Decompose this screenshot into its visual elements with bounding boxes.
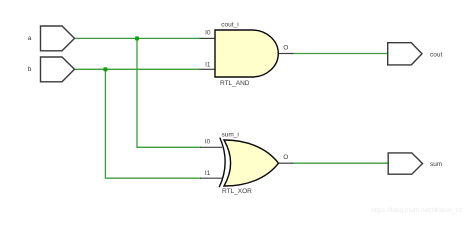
svg-text:sum_i: sum_i <box>222 132 239 139</box>
svg-text:RTL_AND: RTL_AND <box>220 80 250 87</box>
svg-text:O: O <box>283 45 288 52</box>
svg-text:O: O <box>283 154 288 161</box>
input port a <box>41 26 75 51</box>
junction dot on wire b <box>103 67 107 71</box>
pin stub AND I1 <box>200 68 216 70</box>
svg-text:cout_i: cout_i <box>221 22 238 29</box>
svg-text:cout: cout <box>430 51 442 58</box>
svg-text:RTL_XOR: RTL_XOR <box>222 188 252 195</box>
pin stub XOR I1 <box>200 177 222 179</box>
output port sum <box>388 153 422 174</box>
svg-text:b: b <box>28 66 32 73</box>
wire sum output <box>292 162 388 164</box>
wire cout output <box>292 53 388 55</box>
input port b <box>41 57 75 82</box>
junction dot on wire a <box>135 36 139 40</box>
xor gate sum_i RTL_XOR body <box>224 140 279 186</box>
svg-text:a: a <box>28 35 32 42</box>
svg-text:I0: I0 <box>205 29 211 36</box>
svg-text:https://blog.csdn.net/Motion_z: https://blog.csdn.net/Motion_zz <box>371 207 462 214</box>
svg-text:I0: I0 <box>205 139 211 146</box>
pin stub AND O <box>278 53 293 55</box>
wire a vertical branch <box>137 38 201 147</box>
xor gate leading arc <box>219 138 225 188</box>
and gate cout_i RTL_AND <box>215 30 278 77</box>
pin stub AND I0 <box>200 37 216 39</box>
pin stub XOR O <box>279 162 294 164</box>
output port cout <box>388 43 422 65</box>
pin stub XOR I0 <box>200 146 222 148</box>
wire a horizontal <box>75 37 201 39</box>
wire b vertical branch <box>105 69 201 178</box>
svg-text:I1: I1 <box>205 62 211 69</box>
svg-text:I1: I1 <box>205 170 211 177</box>
wire b horizontal <box>75 68 201 70</box>
svg-text:sum: sum <box>430 161 442 168</box>
